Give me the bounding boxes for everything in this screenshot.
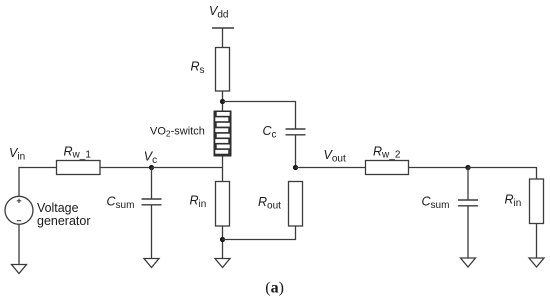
- resistor Rs: [216, 48, 230, 92]
- wire Cc to Vout node: [295, 135, 297, 168]
- wire node to Cc branch: [223, 102, 296, 130]
- resistor Rw1: [57, 161, 101, 175]
- ground under generator: [12, 265, 27, 274]
- wire Rin right to ground: [536, 224, 538, 259]
- wire Rw2 to right node: [409, 167, 469, 169]
- svg-text:Voltage: Voltage: [37, 201, 79, 215]
- resistor Rin right: [530, 179, 544, 224]
- ground under Csum right: [461, 258, 476, 267]
- wire Csum right to ground: [467, 206, 469, 258]
- capacitor Csum left: [142, 199, 162, 205]
- label Voltage generator: [37, 201, 91, 228]
- resistor Rw2: [366, 161, 409, 175]
- capacitor Cc: [286, 129, 306, 135]
- wire right node to Rin right: [468, 168, 537, 180]
- wire Rin left to ground: [222, 226, 224, 259]
- wire Vc to VO2 column: [152, 167, 223, 169]
- wire Rs to VO2 switch: [222, 91, 224, 111]
- wire bottom return Rin to Rout: [223, 226, 296, 240]
- ground under Rin right: [529, 258, 544, 267]
- svg-text:(a): (a): [265, 280, 284, 297]
- ground under Rin left: [215, 259, 230, 268]
- VO2 switch U1: [214, 111, 232, 157]
- wire Csum left to ground: [151, 205, 153, 259]
- resistor Rin left: [216, 182, 230, 227]
- capacitor Csum right: [458, 200, 478, 206]
- wire Vdd to Rs: [222, 28, 224, 48]
- wire VO2 switch to Rin: [222, 157, 224, 182]
- node right: [465, 165, 470, 170]
- resistor Rout: [289, 182, 303, 227]
- voltage generator V1: [5, 196, 33, 224]
- wire Rw1 to Vc node: [100, 167, 152, 169]
- svg-text:VO2-switch: VO2-switch: [150, 126, 205, 139]
- wire right node to Csum right: [467, 168, 469, 201]
- svg-text:generator: generator: [37, 214, 91, 228]
- node Vc: [149, 165, 154, 170]
- wire generator to ground: [18, 224, 20, 264]
- wire Vc to Csum: [151, 168, 153, 200]
- node below Rin left: [220, 237, 225, 242]
- wire Vout to Rw2: [296, 167, 366, 169]
- node junction below Rs: [220, 99, 225, 104]
- node Vout: [293, 165, 298, 170]
- wire Vin corner to Rw1: [19, 168, 57, 197]
- ground under Csum left: [144, 259, 159, 268]
- supply Vdd bar: [212, 27, 234, 29]
